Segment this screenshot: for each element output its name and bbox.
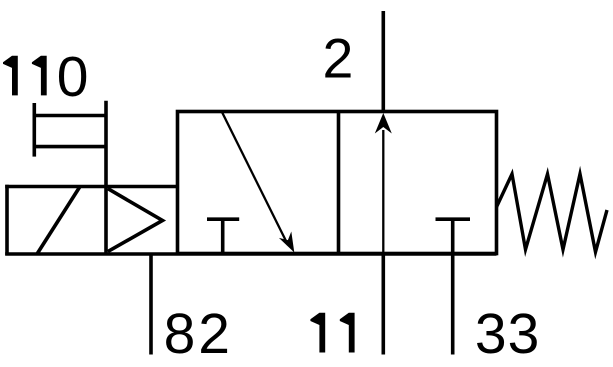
svg-text:0: 0	[57, 45, 89, 109]
svg-text:33: 33	[475, 302, 540, 366]
svg-text:82: 82	[164, 302, 233, 366]
svg-text:2: 2	[323, 28, 354, 90]
